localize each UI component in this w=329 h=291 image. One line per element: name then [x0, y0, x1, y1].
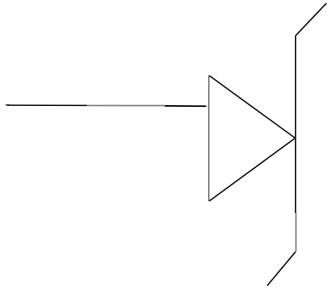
wire base input gray stub at left tip — [5, 103, 10, 105]
transistor Q1 triangle left edge (gray) — [208, 75, 210, 201]
wire emitter gray vertical segment — [295, 213, 297, 251]
wire base input gray segment middle — [87, 105, 165, 107]
wire collector vertical bar — [295, 35, 297, 213]
wire base input black segment left — [7, 104, 88, 106]
transistor Q1 triangle top edge — [209, 76, 295, 138]
wire emitter diagonal bottom — [267, 252, 295, 286]
wire base input black segment right — [165, 105, 206, 107]
transistor Q1 triangle bottom edge — [209, 138, 295, 201]
wire collector diagonal top — [296, 3, 327, 35]
